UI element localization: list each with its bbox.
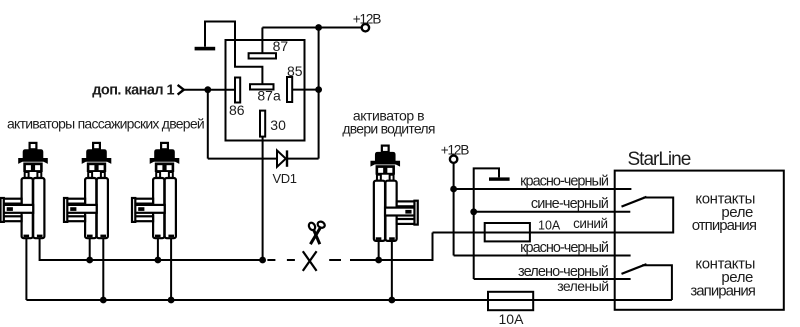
wire ground tap loop bbox=[474, 168, 499, 189]
actuator A3 bbox=[132, 143, 179, 238]
svg-text:StarLine: StarLine bbox=[628, 149, 691, 170]
fuse 10A green row bbox=[488, 292, 533, 310]
wire +12V rail top bbox=[262, 27, 361, 29]
svg-text:10А: 10А bbox=[538, 218, 561, 232]
relay pin 85 bar bbox=[287, 77, 292, 102]
junction dot act2 bus1 bbox=[86, 257, 93, 264]
svg-text:30: 30 bbox=[270, 117, 286, 133]
svg-text:87а: 87а bbox=[257, 88, 281, 104]
relay pin 86 bar bbox=[235, 78, 240, 103]
svg-text:85: 85 bbox=[287, 63, 303, 79]
wire bus1 solid right bbox=[350, 233, 433, 261]
junction dot pin85 branch bbox=[315, 86, 322, 93]
wire +12V vertical 1 bbox=[453, 163, 455, 256]
svg-text:двери водителя: двери водителя bbox=[342, 121, 434, 137]
svg-text:86: 86 bbox=[229, 102, 245, 118]
wire actuator2 leads bbox=[90, 239, 104, 300]
wire actuator3 leads bbox=[158, 239, 171, 300]
junction dot act2 bus2 bbox=[100, 297, 107, 304]
ground wire top-left bbox=[205, 22, 262, 85]
dop kanal arrowhead bbox=[178, 85, 184, 95]
junction dot red-black row1 bbox=[450, 186, 457, 193]
ground symbol top-left bbox=[195, 47, 216, 51]
wire driver actuator leads bbox=[379, 241, 392, 300]
svg-text:активаторы пассажирских дверей: активаторы пассажирских дверей bbox=[7, 116, 204, 132]
wire ground vertical 2 bbox=[473, 189, 475, 279]
junction dot +12V rail bbox=[315, 24, 322, 31]
svg-text:отпирания: отпирания bbox=[692, 217, 757, 234]
relay pin 87 bar bbox=[249, 53, 276, 58]
junction dot driver bus1 bbox=[375, 257, 382, 264]
actuator A1 bbox=[1, 143, 48, 238]
svg-text:сине-черный: сине-черный bbox=[531, 196, 609, 212]
wire blue row bbox=[433, 198, 674, 233]
terminal +12V circle top bbox=[362, 24, 369, 31]
svg-text:+12В: +12В bbox=[353, 11, 382, 26]
StarLine box bbox=[615, 171, 784, 310]
wire dop kanal bbox=[183, 89, 235, 91]
fuse 10A blue row bbox=[485, 223, 530, 241]
svg-text:синий: синий bbox=[573, 216, 607, 231]
junction dot act3 bus1 bbox=[155, 257, 162, 264]
junction dot driver bus2 bbox=[388, 297, 395, 304]
wire pin30 down bbox=[262, 137, 264, 260]
wire green loop inside box bbox=[642, 265, 672, 300]
scissors bbox=[308, 220, 326, 244]
junction dot pin30 bus1 bbox=[259, 257, 266, 264]
svg-text:VD1: VD1 bbox=[273, 171, 297, 186]
wire actuator1 left bbox=[25, 239, 27, 300]
wire diode line bbox=[208, 158, 319, 160]
wire pin85 to +12V branch bbox=[292, 89, 319, 91]
junction dot act3 bus2 bbox=[168, 297, 175, 304]
cut X mark bbox=[303, 251, 317, 271]
relay pin 87a bar bbox=[250, 84, 274, 89]
svg-text:87: 87 bbox=[273, 38, 289, 54]
svg-text:10А: 10А bbox=[499, 311, 525, 327]
svg-text:доп. канал 1: доп. канал 1 bbox=[92, 83, 174, 99]
wire dop kanal vertical bbox=[207, 90, 209, 159]
wire red-black row 1 bbox=[454, 188, 632, 190]
svg-text:запирания: запирания bbox=[690, 282, 755, 299]
svg-text:красно-черный: красно-черный bbox=[520, 174, 609, 190]
actuator driver (mirrored) bbox=[370, 146, 417, 241]
switch arm lock relay bbox=[622, 264, 647, 274]
wire bus1 solid left bbox=[40, 239, 263, 260]
terminal +12V circle right bbox=[450, 156, 457, 163]
diode VD1 bbox=[277, 150, 287, 166]
wire blue-black row bbox=[474, 211, 631, 213]
relay K1 box bbox=[226, 40, 305, 141]
wire bus2 green bbox=[26, 299, 672, 301]
wire green-black row bbox=[474, 278, 631, 280]
junction dot dop kanal bbox=[204, 86, 211, 93]
svg-text:зеленый: зеленый bbox=[557, 278, 608, 294]
svg-text:+12В: +12В bbox=[441, 142, 470, 157]
ground symbol near StarLine bbox=[489, 177, 510, 180]
svg-text:красно-черный: красно-черный bbox=[520, 240, 609, 256]
actuator A2 bbox=[64, 143, 111, 238]
switch arm unlock relay bbox=[622, 197, 647, 207]
relay pin 30 bar bbox=[260, 111, 265, 137]
wire 87 to +12V bbox=[261, 28, 263, 54]
wire red-black row 2 bbox=[454, 255, 631, 257]
wire +12V branch vertical bbox=[318, 28, 320, 159]
junction dot blue-black row bbox=[470, 208, 477, 215]
wire bus1 dashes bbox=[267, 259, 341, 261]
